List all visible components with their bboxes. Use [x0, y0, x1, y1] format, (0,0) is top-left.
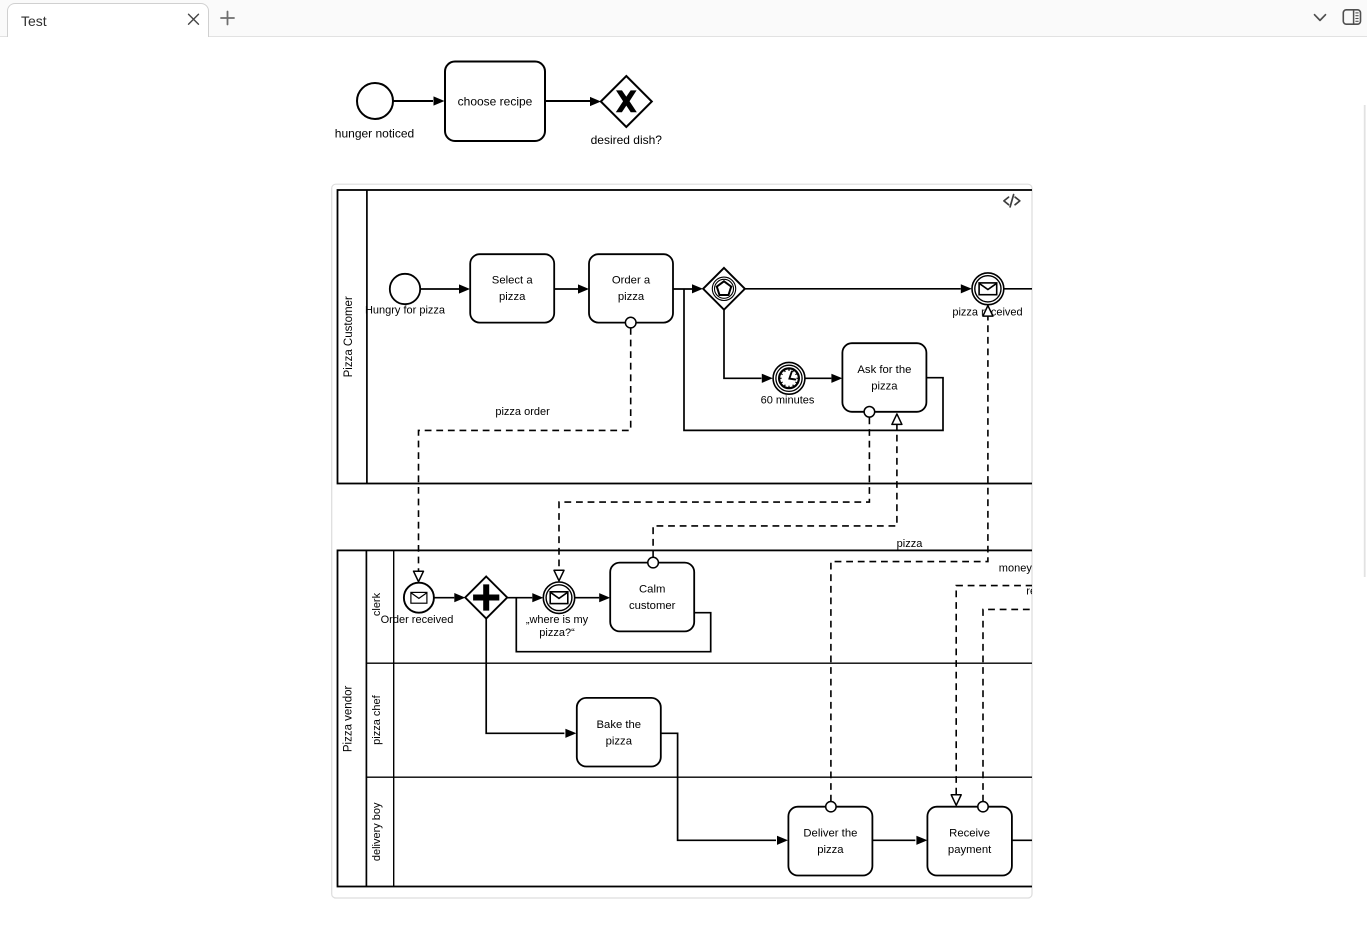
svg-text:customer: customer	[629, 600, 676, 612]
event-based gateway	[703, 268, 745, 310]
message flow: Ask for the pizza -> where is my pizza	[559, 418, 869, 570]
tab "Test"	[7, 3, 209, 37]
svg-text:pizza: pizza	[871, 380, 898, 392]
svg-text:Select a: Select a	[492, 275, 534, 287]
svg-text:Hungry for pizza: Hungry for pizza	[365, 305, 446, 317]
task: Bake the pizza	[577, 698, 661, 767]
message flow: money (offscreen -> Receive payment)	[956, 586, 1032, 795]
svg-text:pizza: pizza	[606, 736, 633, 748]
message flow: Calm customer -> Ask for the pizza	[653, 425, 897, 558]
sequence flow: Select a pizza to Order a pizza	[554, 288, 578, 290]
hollow arrowhead into Ask for the pizza (up)	[892, 414, 902, 425]
svg-text:payment: payment	[948, 844, 992, 856]
svg-text:Order a: Order a	[612, 275, 651, 287]
hollow arrowhead into Receive payment (down)	[951, 795, 961, 806]
svg-text:Pizza vendor: Pizza vendor	[343, 685, 355, 752]
new tab + icon	[210, 0, 270, 37]
sequence flow: Ask for the pizza loop back to gateway	[684, 289, 943, 431]
exclusive gateway: desired dish?	[601, 76, 652, 127]
message flow source circle on Calm customer top	[648, 557, 659, 568]
code toggle icon </>	[1004, 195, 1020, 207]
task: Calm customer	[610, 563, 694, 632]
task: choose recipe	[445, 62, 545, 142]
timer hands	[789, 372, 795, 380]
sequence flow: Order a pizza to event gateway (with loop join)	[673, 288, 692, 290]
hollow arrowhead into where is my pizza (down)	[554, 570, 564, 581]
svg-text:hunger noticed: hunger noticed	[335, 127, 414, 141]
svg-text:60 minutes: 60 minutes	[761, 394, 815, 406]
task: Deliver the pizza	[788, 807, 872, 876]
svg-text:Calm: Calm	[639, 583, 665, 595]
message flow: receipt (Receive payment -> offscreen)	[983, 609, 1033, 801]
sequence flow: choose recipe to gateway	[545, 100, 590, 102]
parallel gateway	[465, 577, 507, 619]
tab close X icon	[8, 4, 210, 38]
message flow: pizza order (Order a pizza -> Order received)	[419, 328, 631, 571]
svg-text:pizza?“: pizza?“	[539, 627, 575, 639]
message flow: pizza (Deliver the pizza -> pizza received)	[831, 317, 988, 802]
svg-text:Bake the: Bake the	[597, 719, 642, 731]
svg-text:pizza: pizza	[499, 291, 526, 303]
message catch event: where is my pizza?	[543, 582, 574, 613]
svg-text:money: money	[999, 562, 1033, 574]
sequence flow: parallel gateway down to Bake the pizza	[486, 619, 564, 734]
hollow arrowhead into Order received (down)	[414, 571, 424, 582]
sequence flow: Receive payment out (clipped)	[1012, 839, 1033, 841]
task: Select a pizza	[470, 254, 554, 322]
arrowhead into gateway	[590, 97, 601, 106]
svg-text:Ask for the: Ask for the	[857, 364, 911, 376]
chevron down icon	[1302, 0, 1342, 37]
message flow source circle below Order a pizza	[625, 317, 636, 328]
message flow source circle on Receive payment top	[978, 802, 988, 812]
timer event: 60 minutes	[773, 362, 805, 394]
svg-text:pizza: pizza	[618, 291, 645, 303]
arrowhead into choose recipe	[434, 96, 445, 105]
sequence flow: timer to Ask for the pizza	[805, 377, 832, 379]
svg-text:desired dish?: desired dish?	[591, 133, 663, 147]
svg-text:pizza chef: pizza chef	[371, 694, 383, 744]
svg-text:pizza: pizza	[817, 844, 844, 856]
scrollbar thumb at right edge	[1364, 105, 1366, 577]
task: Ask for the pizza	[842, 343, 926, 412]
start event: hunger noticed	[357, 83, 393, 119]
panel toggle icon	[1338, 0, 1367, 37]
sequence flow: where is my pizza to Calm customer	[575, 597, 600, 599]
svg-text:Order received: Order received	[381, 614, 454, 626]
container border	[332, 184, 1032, 898]
svg-text:Pizza Customer: Pizza Customer	[343, 296, 355, 377]
sequence flow: parallel gateway to where is my pizza (with loop join)	[507, 597, 532, 599]
sequence flow: gateway down to timer	[724, 310, 762, 379]
sequence flow: Bake the pizza to Deliver the pizza	[661, 733, 776, 840]
sequence flow: Deliver the pizza to Receive payment	[872, 839, 915, 841]
task: Order a pizza	[589, 254, 673, 322]
svg-text:receipt: receipt	[1026, 585, 1059, 597]
lane divider pizza chef / delivery boy	[366, 776, 1058, 778]
svg-text:choose recipe: choose recipe	[458, 95, 533, 109]
task: Receive payment	[927, 807, 1012, 876]
message start event: Order received	[404, 583, 434, 613]
svg-text:„where is my: „where is my	[526, 614, 589, 626]
sequence flow: gateway to pizza received	[745, 288, 961, 290]
svg-text:Deliver the: Deliver the	[803, 827, 857, 839]
sequence flow: Calm customer loop back to where is my pizza	[516, 598, 710, 652]
svg-text:clerk: clerk	[371, 592, 383, 616]
message flow source circle below Ask for the pizza	[864, 407, 875, 418]
sequence flow: start to choose recipe	[392, 100, 433, 102]
svg-text:delivery boy: delivery boy	[371, 802, 383, 861]
message flow source circle on Deliver the pizza top	[826, 802, 836, 812]
message catch event: pizza received	[972, 273, 1004, 305]
sequence flow: Order received to parallel gateway	[434, 597, 454, 599]
pool Pizza Customer border	[338, 190, 1058, 484]
sequence flow: start to Select a pizza	[420, 288, 459, 290]
svg-text:Receive: Receive	[949, 827, 990, 839]
hollow arrowhead into pizza received (up)	[983, 306, 993, 317]
pool Pizza Customer label band divider	[366, 190, 368, 484]
lane divider clerk / pizza chef	[366, 662, 1058, 664]
start event: Hungry for pizza	[390, 274, 420, 304]
pool Pizza vendor label band divider	[365, 550, 367, 886]
sequence flow: pizza received out (clipped)	[1004, 288, 1033, 290]
X marker of gateway	[617, 91, 635, 111]
pool Pizza vendor border	[338, 550, 1058, 886]
tab bar	[0, 0, 1367, 37]
lane label band divider	[393, 550, 395, 886]
svg-text:pizza order: pizza order	[495, 406, 550, 418]
svg-text:pizza: pizza	[897, 538, 924, 550]
